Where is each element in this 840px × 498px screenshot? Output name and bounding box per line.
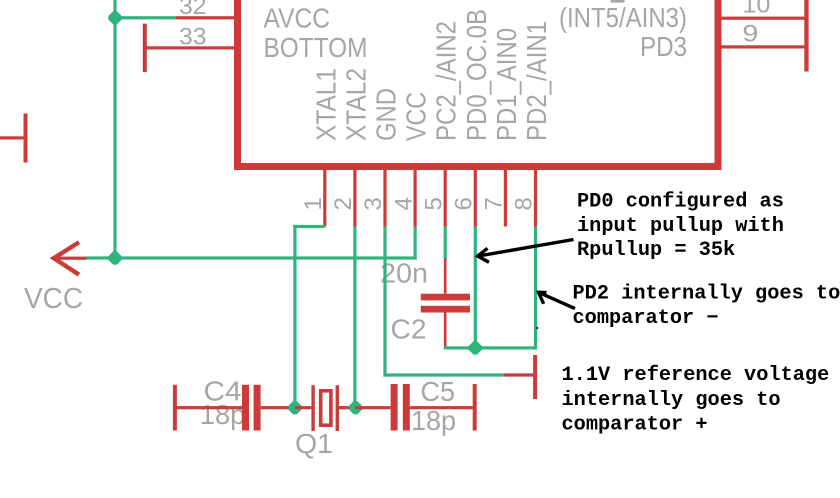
capacitor C4 plates <box>242 385 249 431</box>
1.1V stub terminal bar <box>533 355 537 399</box>
svg-text:6: 6 <box>451 197 478 210</box>
capacitor C2 bottom lead <box>444 313 447 350</box>
svg-text:8: 8 <box>511 197 538 210</box>
svg-text:PD2 internally goes to: PD2 internally goes to <box>573 283 840 306</box>
svg-text:1: 1 <box>300 197 327 210</box>
IC U1 body outline <box>238 0 719 167</box>
svg-text:4: 4 <box>390 197 417 210</box>
pin 32 red line <box>176 16 237 19</box>
wire: PC2 net green segment pin5 <box>444 227 447 260</box>
annotation arrow 1 <box>478 240 574 263</box>
capacitor C2 top plate <box>421 294 470 301</box>
capacitor C4 right lead <box>261 406 295 409</box>
capacitor C2 bottom plate <box>421 306 470 313</box>
svg-text:7: 7 <box>481 197 508 210</box>
crystal Q1 body box <box>321 391 331 425</box>
capacitor C5 right lead <box>410 406 473 409</box>
wire: XTAL1 net vertical x=294.9 <box>293 225 296 408</box>
svg-text:VCC: VCC <box>401 92 432 141</box>
wire: PD0 net vertical x=475.3 <box>474 227 477 350</box>
svg-text:Rpullup = 35k: Rpullup = 35k <box>577 239 735 262</box>
svg-text:input pullup with: input pullup with <box>577 215 784 238</box>
svg-text:GND: GND <box>371 88 402 141</box>
capacitor C4 terminal bar <box>173 385 177 431</box>
right terminal bar at x=806 <box>804 0 808 72</box>
svg-text:VCC: VCC <box>24 283 83 315</box>
capacitor C5 plates <box>391 384 398 431</box>
svg-text:32: 32 <box>179 0 207 20</box>
pin 5 stub <box>444 170 447 227</box>
wire: VCC net vertical x=415.1 <box>414 227 417 260</box>
wire: XTAL2 net vertical x=354.9 <box>353 227 356 408</box>
svg-text:18p: 18p <box>411 405 456 436</box>
capacitor C4 left lead <box>175 406 243 409</box>
pin 1 stub <box>323 170 326 227</box>
wire: PD2 net vertical x=535.5 <box>534 227 537 350</box>
pin 7 stub <box>504 170 507 227</box>
crystal Q1 left lead <box>295 406 312 409</box>
crystal Q1 right plate <box>336 385 339 431</box>
capacitor C2 top lead <box>444 259 447 294</box>
svg-text:10: 10 <box>742 0 770 19</box>
svg-text:PD0_OC.0B: PD0_OC.0B <box>461 9 492 141</box>
node junction at (355.5,407.7) <box>349 401 362 414</box>
svg-text:(INT5/AIN3): (INT5/AIN3) <box>559 2 687 33</box>
left edge pin terminal bar <box>24 114 28 163</box>
left edge pin stub wire <box>0 136 24 139</box>
wire: green vertical net at x=115 from top to VCC rail <box>113 0 116 260</box>
svg-text:33: 33 <box>179 23 207 50</box>
node junction at (115,17.8) <box>108 11 121 24</box>
wire: VCC rail horizontal y=257.2 <box>86 256 417 259</box>
svg-text:comparator −: comparator − <box>573 307 719 330</box>
crystal Q1 right lead <box>339 406 356 409</box>
pin 4 stub <box>414 170 417 227</box>
svg-text:18p: 18p <box>200 399 246 430</box>
svg-text:PC2_/AIN2: PC2_/AIN2 <box>431 21 462 141</box>
pin 2 stub <box>353 170 356 227</box>
svg-text:C2: C2 <box>391 314 427 345</box>
svg-text:2: 2 <box>330 197 357 210</box>
svg-text:20n: 20n <box>380 258 428 289</box>
node junction at (475.3,347.9) <box>469 341 482 354</box>
wire: comparator net horizontal y=347.9 <box>444 346 536 349</box>
svg-text:XTAL2: XTAL2 <box>340 68 371 141</box>
svg-text:XTAL1: XTAL1 <box>310 68 341 141</box>
svg-text:PD0 configured as: PD0 configured as <box>577 190 784 213</box>
pin 3 stub <box>383 170 386 227</box>
svg-text:3: 3 <box>360 197 387 210</box>
capacitor C5 left lead <box>356 406 391 409</box>
pin 9 red line <box>722 45 807 48</box>
svg-text:5: 5 <box>420 197 447 210</box>
pin 33 red line <box>144 46 237 49</box>
svg-text:C5: C5 <box>421 376 456 407</box>
wire: green segment junction to pin 32 <box>115 16 176 19</box>
pin 8 stub <box>534 170 537 227</box>
VCC arrow red <box>54 242 79 274</box>
wire: GND net vertical x=385 <box>383 227 386 377</box>
svg-text:1.1V reference voltage: 1.1V reference voltage <box>562 364 830 387</box>
pin 6 stub <box>474 170 477 227</box>
stray dot artifact <box>536 327 538 329</box>
node junction at (115,257.2) <box>108 251 121 264</box>
crystal Q1 left plate <box>311 385 314 431</box>
VCC arrow tail <box>53 257 86 260</box>
pin 10 red line <box>722 17 807 20</box>
svg-text:Q1: Q1 <box>295 428 333 459</box>
wire: XTAL1 net horizontal y=226.5 <box>293 225 325 228</box>
svg-text:PD3: PD3 <box>640 31 687 62</box>
clipped label sliver top edge <box>611 0 625 3</box>
svg-text:PD1_AIN0: PD1_AIN0 <box>491 28 522 141</box>
svg-text:PD2_/AIN1: PD2_/AIN1 <box>521 21 552 141</box>
svg-text:BOTTOM: BOTTOM <box>264 32 368 63</box>
svg-text:AVCC: AVCC <box>264 2 331 33</box>
svg-text:9: 9 <box>742 21 758 48</box>
1.1V stub red wire y=375 <box>504 373 535 376</box>
svg-text:comparator +: comparator + <box>562 414 708 437</box>
capacitor C5 terminal bar <box>473 384 477 431</box>
pin 33 terminal bar <box>143 24 147 73</box>
annotation arrow 2 <box>539 292 576 308</box>
node junction at (294.9,407.7) <box>288 401 301 414</box>
svg-text:internally goes to: internally goes to <box>562 389 781 412</box>
wire: GND net horizontal y=375 <box>383 373 504 376</box>
